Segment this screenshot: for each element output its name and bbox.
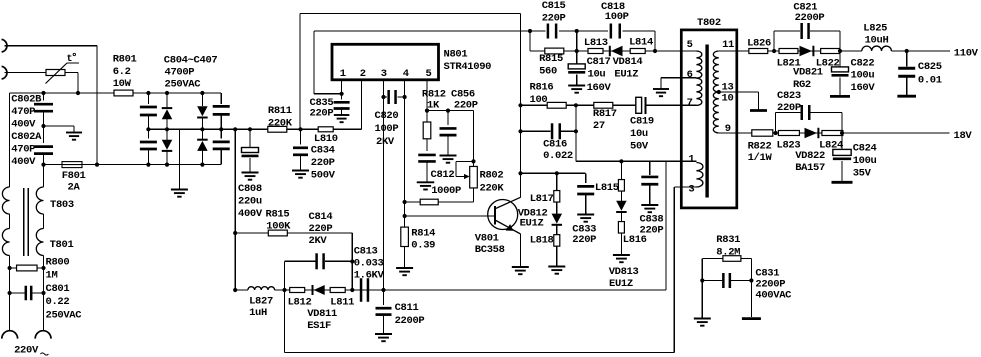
inductor L813 (588, 49, 603, 54)
inductor L825 10uH (862, 46, 892, 51)
inductor L812 (290, 288, 305, 293)
wire IC frame outer (pin2 feed) y=13.5 (300, 13, 521, 15)
node: bus/C814 leg (282, 288, 286, 292)
resistor R813 (R802 lower arm) (473, 188, 475, 202)
svg-text:C817: C817 (587, 56, 611, 68)
svg-text:0.022: 0.022 (543, 150, 573, 162)
wire thermistor to top bus (65, 72, 78, 74)
bridge column capacitor C804-a (x=148) (146, 91, 150, 95)
T802 pin 3 wire (674, 186, 696, 188)
svg-text:L815: L815 (595, 182, 619, 194)
svg-text:t: t (67, 54, 73, 65)
bottom rail wire y=352.4 (285, 351, 675, 353)
svg-text:1uH: 1uH (249, 307, 267, 319)
18V rail wire y=133 (737, 132, 950, 134)
bridge column capacitor C804-b (x=221) (219, 127, 223, 131)
node: C814 right (350, 259, 354, 263)
svg-text:C819: C819 (630, 115, 654, 127)
wire pin1 drop x=666 (665, 161, 667, 290)
svg-text:10: 10 (722, 92, 734, 104)
svg-text:R815: R815 (539, 53, 563, 65)
svg-text:160V: 160V (851, 82, 876, 94)
node: pin4/base wire (403, 214, 407, 218)
potentiometer R802 220K (470, 166, 478, 188)
resistor R822 1/1W (752, 130, 773, 136)
wire base (pin4 to V801) (405, 215, 495, 217)
110V rail wire y=51 (737, 50, 862, 52)
svg-text:400V: 400V (238, 208, 263, 220)
node: C856 top (446, 109, 450, 113)
T802 primary winding pins 5-6-7 (696, 51, 701, 105)
inductor L822 (821, 49, 840, 54)
transformer T802 box (681, 30, 737, 208)
capacitor C834 220P 500V (300, 129, 302, 144)
svg-text:100P: 100P (375, 123, 399, 135)
node: pin4/R813 (403, 200, 407, 204)
svg-text:8.2M: 8.2M (716, 247, 740, 259)
svg-text:C801: C801 (46, 283, 70, 295)
wire from J1 to fuse rail (5, 45, 97, 47)
svg-text:R815: R815 (266, 208, 290, 220)
svg-text:100P: 100P (605, 11, 629, 23)
diode VD814 EU1Z (609, 46, 611, 57)
wire L816 to ground (620, 233, 622, 255)
svg-text:C811: C811 (395, 302, 419, 314)
svg-text:T803: T803 (50, 199, 74, 211)
capacitor C813 0.033 1.6KV (series) (360, 278, 363, 302)
resistor R831 8.2M (702, 258, 723, 260)
node: bus/x235 (233, 288, 237, 292)
wire C831 right to chassis (750, 281, 752, 318)
wire x=576.7 to C817 (576, 31, 578, 64)
common-mode choke T803/T801 left winding (2, 187, 9, 214)
capacitor C825 0.01 (906, 51, 908, 67)
svg-text:C812: C812 (431, 169, 455, 181)
svg-text:220P: 220P (311, 157, 335, 169)
T802 lower primary winding pins 1-3 (696, 163, 703, 188)
svg-text:7: 7 (687, 97, 693, 109)
svg-text:1: 1 (688, 154, 694, 166)
fuse bus wire y=164.6 (44, 164, 222, 166)
node: L815 top (619, 159, 623, 163)
svg-text:R801: R801 (113, 53, 137, 65)
wire x=352.3 down (351, 233, 353, 290)
node: C802A bottom on fuse bus (41, 163, 45, 167)
svg-text:0.01: 0.01 (918, 75, 942, 87)
svg-text:C825: C825 (918, 61, 942, 73)
svg-text:220P: 220P (310, 107, 334, 119)
resistor R816 100 (521, 104, 636, 106)
wire C814 left leg (284, 261, 286, 290)
node: pin1 / C835 (340, 92, 344, 96)
left rail of snubber section x=235 (234, 129, 236, 290)
choke core lines (23, 188, 25, 256)
svg-text:1K: 1K (427, 100, 440, 112)
svg-text:2KV: 2KV (309, 235, 328, 247)
electrolytic capacitor C824 100u 35V (841, 133, 843, 149)
svg-text:100: 100 (530, 94, 548, 106)
node: C831 right (749, 278, 753, 282)
node: L824/C824 (840, 131, 844, 135)
inductor L816 (620, 212, 622, 221)
electrolytic capacitor C808 220u 400V (248, 127, 252, 131)
svg-text:R822: R822 (748, 141, 772, 153)
svg-text:VD822: VD822 (795, 150, 825, 162)
capacitor C831 2200P 400VAC (702, 280, 723, 282)
svg-text:STR41090: STR41090 (444, 61, 492, 73)
svg-text:R802: R802 (480, 170, 504, 182)
svg-text:0.22: 0.22 (46, 296, 70, 308)
inductor L826 (749, 49, 768, 54)
node: C817 top (575, 49, 579, 53)
wire R831 left leg (701, 259, 703, 319)
wire R815 branch down (529, 31, 531, 51)
svg-text:C815: C815 (542, 0, 566, 12)
node: snubber rail (653, 49, 657, 53)
capacitor C814 220P 2KV (285, 260, 316, 262)
inductor L815 (620, 161, 622, 180)
svg-text:27: 27 (593, 120, 605, 132)
svg-text:10uH: 10uH (865, 35, 889, 47)
wire IC frame inner y=31 (314, 30, 530, 32)
svg-text:250VAC: 250VAC (46, 310, 83, 322)
svg-text:R814: R814 (411, 228, 435, 240)
svg-text:T801: T801 (50, 239, 74, 251)
svg-text:C823: C823 (777, 90, 801, 102)
wire pin1 node y=161.3 (576, 160, 666, 162)
svg-text:ES1F: ES1F (307, 320, 331, 332)
ground (pin 6) (660, 78, 662, 89)
svg-text:220u: 220u (238, 196, 262, 208)
wire down to R802 top (473, 111, 475, 167)
ground (R831 left) (694, 318, 711, 320)
electrolytic capacitor C822 100u 160V (839, 51, 841, 67)
diode VD822 BA157 (817, 128, 819, 139)
svg-text:L810: L810 (314, 133, 338, 145)
svg-text:L813: L813 (584, 37, 608, 49)
wire collector rail x=520.5 (520, 14, 522, 198)
common-mode choke right winding (43, 165, 45, 187)
wire R815b y=233 (235, 232, 352, 234)
svg-text:1/1W: 1/1W (748, 152, 773, 164)
capacitor C812 1000P (426, 139, 428, 151)
svg-text:10u: 10u (588, 68, 606, 80)
svg-text:EU1Z: EU1Z (609, 278, 633, 290)
capacitor C811 2200P (383, 290, 385, 305)
node: R811/frame junction (298, 127, 302, 131)
diode VD821 RG2 (812, 46, 814, 57)
svg-text:220V: 220V (14, 344, 39, 356)
node: C815 left / R815 branch (528, 29, 532, 33)
svg-text:10u: 10u (630, 128, 648, 140)
svg-text:6: 6 (687, 69, 693, 81)
T802 pin 11 wire (719, 50, 737, 52)
svg-text:R800: R800 (46, 257, 70, 269)
node: fuse bus / terminal-1 rail (95, 163, 99, 167)
svg-text:500V: 500V (311, 169, 336, 181)
svg-text:C802A: C802A (11, 131, 42, 143)
node: L822/C822 (838, 49, 842, 53)
snubber wire y=51 to T802 pin5 (530, 50, 696, 52)
capacitor C833 220P (585, 173, 587, 183)
svg-text:2A: 2A (68, 182, 81, 194)
inductor L818 (556, 225, 558, 235)
left rail wire (to T803 winding) (9, 93, 11, 187)
node: rail/R816 (518, 103, 522, 107)
220V input terminals (2, 331, 18, 339)
node: R822/C823 (774, 131, 778, 135)
bridge diode column x=167 upper (points up) (165, 91, 169, 95)
electrolytic capacitor C817 10u 160V (568, 64, 585, 69)
T802 core bar (705, 45, 708, 198)
svg-text:C802B: C802B (11, 93, 42, 105)
node: tap 13/10 (717, 90, 721, 94)
inductor L827 1uH (248, 287, 275, 290)
svg-text:EU1Z: EU1Z (614, 68, 638, 80)
svg-text:50V: 50V (630, 141, 649, 153)
svg-text:400VAC: 400VAC (755, 289, 792, 301)
svg-text:R811: R811 (268, 105, 292, 117)
svg-text:C822: C822 (851, 58, 875, 70)
svg-text:0.39: 0.39 (411, 240, 435, 252)
capacitor C802A (34, 145, 53, 148)
diode VD813 EU1Z (620, 191, 622, 201)
chassis bar (tap) (750, 109, 767, 112)
T802 pin 1 wire (666, 160, 696, 162)
resistor R815 100K (268, 230, 287, 236)
svg-text:5: 5 (426, 68, 432, 80)
node: x=235 rail top (233, 127, 237, 131)
capacitor C802B (43, 93, 45, 101)
svg-text:N801: N801 (444, 49, 468, 61)
inductor L821 (779, 49, 798, 54)
resistor R814 0.39 (vertical) (401, 227, 409, 246)
svg-text:4700P: 4700P (165, 67, 195, 79)
svg-text:2200P: 2200P (795, 12, 825, 24)
svg-text:1.6KV: 1.6KV (354, 270, 385, 282)
resistor R817 27 (594, 102, 613, 108)
ground (V801 emitter) (512, 266, 529, 268)
wire emitter to ground (520, 234, 522, 267)
svg-text:3: 3 (381, 68, 387, 80)
wire pin5 junction to R802 branch (427, 110, 474, 112)
inductor L811 (330, 288, 345, 293)
svg-text:2200P: 2200P (395, 315, 425, 327)
collector bus wire y=173.3 (521, 172, 586, 174)
node: C802 top (41, 91, 45, 95)
svg-text:1M: 1M (46, 270, 58, 282)
svg-text:470P: 470P (11, 144, 35, 156)
svg-text:L818: L818 (530, 235, 554, 247)
node: R816/R817 (574, 103, 578, 107)
capacitor C823 220P loop (775, 113, 777, 134)
svg-text:400V: 400V (11, 119, 36, 131)
svg-text:R817: R817 (593, 108, 617, 120)
wire x=575.9 down (575, 105, 577, 161)
svg-text:220K: 220K (268, 117, 293, 129)
bridge diode column x=202 lower (points up) (197, 141, 208, 151)
node: x235/R815 (233, 231, 237, 235)
svg-text:4: 4 (403, 68, 409, 80)
svg-text:L827: L827 (249, 295, 273, 307)
svg-text:6.2: 6.2 (113, 66, 131, 78)
svg-text:L812: L812 (288, 297, 312, 309)
svg-text:160V: 160V (587, 82, 612, 94)
svg-text:35V: 35V (853, 168, 872, 180)
svg-text:C834: C834 (311, 144, 335, 156)
svg-text:T802: T802 (697, 17, 721, 29)
svg-text:VD813: VD813 (609, 266, 639, 278)
svg-text:100u: 100u (853, 155, 877, 167)
inductor L810 (bead) (318, 127, 333, 132)
AC input terminal J2 (bottom) (2, 66, 7, 79)
node: thermistor junction (76, 91, 80, 95)
thermistor RT (t) (46, 72, 65, 74)
capacitor C816 0.022 (521, 130, 551, 132)
wire from J2 to thermistor RT (5, 72, 47, 74)
node: bus/C813 leg (350, 288, 354, 292)
wire tap to chassis (719, 91, 759, 93)
svg-text:220P: 220P (572, 234, 596, 246)
svg-text:C820: C820 (375, 110, 399, 122)
node: C815/C817 junction (575, 29, 579, 33)
svg-text:5: 5 (687, 39, 693, 51)
svg-text:1: 1 (340, 68, 346, 80)
svg-text:2: 2 (360, 68, 366, 80)
capacitor C820 100P 2KV (pins 3-4) (381, 95, 385, 99)
svg-text:1000P: 1000P (431, 185, 461, 197)
svg-text:C824: C824 (853, 143, 877, 155)
wire pin3 drop x=674.3 (673, 187, 675, 352)
mid bus wire y=129.3 (148, 128, 361, 130)
transistor V801 BC358 (488, 200, 518, 230)
T802 secondary winding pins 11-13/10-9 (713, 51, 718, 133)
wire L818 to ground (556, 246, 558, 266)
svg-text:18V: 18V (954, 130, 973, 142)
inductor L814 (630, 49, 645, 54)
node: C831 left (700, 278, 704, 282)
node: rail/collector bus (518, 171, 522, 175)
bridge diode column x=202 upper (points down) (200, 91, 204, 95)
diode VD811 ES1F (312, 285, 314, 295)
diode VD812 EU1Z (556, 202, 558, 214)
svg-text:560: 560 (539, 66, 557, 78)
wire C814 leg to bottom rail (284, 290, 286, 352)
svg-text:2KV: 2KV (376, 136, 395, 148)
svg-text:L814: L814 (629, 36, 653, 48)
node: L826/C821 (772, 49, 776, 53)
svg-text:L817: L817 (530, 193, 554, 205)
svg-text:100K: 100K (266, 221, 291, 233)
electrolytic capacitor C819 10u 50V (636, 97, 642, 113)
top bus wire y=93 (10, 92, 222, 94)
node: R802 top / wiper tie (471, 159, 475, 163)
svg-text:VD814: VD814 (613, 56, 643, 68)
capacitor C815 220P (series) (530, 30, 545, 32)
resistor R800 1M (10, 267, 44, 269)
capacitor C856 220P (447, 111, 449, 126)
resistor R811 220K (268, 126, 287, 132)
ground (doubler midpoint) (171, 189, 188, 191)
svg-text:BC358: BC358 (475, 244, 505, 256)
svg-text:C816: C816 (543, 138, 567, 150)
svg-text:220P: 220P (454, 100, 478, 112)
svg-text:C814: C814 (309, 211, 333, 223)
svg-text:L811: L811 (330, 297, 354, 309)
svg-text:BA157: BA157 (795, 162, 825, 174)
fuse F801 2A (62, 162, 82, 168)
resistor R801 (114, 90, 133, 96)
T802 pin 9 wire (719, 132, 737, 134)
svg-text:R816: R816 (530, 82, 554, 94)
AC input terminal J1 (top) (2, 39, 7, 52)
node: C816/right (574, 129, 578, 133)
svg-text:EU1Z: EU1Z (520, 218, 544, 230)
svg-text:C804~C407: C804~C407 (164, 55, 218, 67)
svg-text:220P: 220P (309, 223, 333, 235)
svg-text:R831: R831 (716, 234, 740, 246)
inductor L824 (822, 131, 843, 136)
svg-text:C808: C808 (238, 183, 262, 195)
svg-text:220P: 220P (777, 102, 801, 114)
node: bus/C811 (381, 288, 385, 292)
svg-text:220P: 220P (640, 225, 664, 237)
svg-text:250VAC: 250VAC (165, 78, 202, 90)
svg-text:10W: 10W (113, 78, 132, 90)
inductor L823 (778, 131, 799, 136)
resistor R812 1K (vertical) (423, 122, 431, 139)
node: rail/C816 (518, 129, 522, 133)
capacitor C838 220P (649, 161, 651, 175)
node: L817 top (555, 171, 559, 175)
svg-text:400V: 400V (11, 156, 36, 168)
wire C802 midpoint to ground (44, 125, 75, 127)
bridge diode column x=167 lower (points down) (162, 140, 173, 150)
capacitor C821 2200P loop (773, 31, 775, 51)
capacitor C801 0.22 (8, 291, 12, 295)
node: pin5 junction (425, 109, 429, 113)
capacitor C835 220P (pin1 to gnd) (341, 94, 343, 100)
R802 wiper arrow (456, 160, 474, 162)
resistor R815 560 (545, 48, 564, 54)
IC N801 STR41090 box (332, 44, 439, 80)
svg-text:RG2: RG2 (793, 79, 811, 91)
node: C802 midpoint (41, 124, 45, 128)
svg-text:110V: 110V (954, 48, 979, 60)
svg-text:470P: 470P (11, 106, 35, 118)
svg-text:220P: 220P (542, 12, 566, 24)
wire C818 to snubber rail (654, 31, 656, 51)
svg-text:220K: 220K (480, 182, 505, 194)
svg-text:F801: F801 (62, 170, 86, 182)
svg-text:L825: L825 (863, 23, 887, 35)
wire R814 to ground (404, 247, 406, 268)
wire R831 right leg (750, 259, 752, 281)
svg-text:3: 3 (688, 184, 694, 196)
svg-text:0.033: 0.033 (354, 258, 384, 270)
svg-text:C813: C813 (354, 246, 378, 258)
wire mid-bus to chassis ground (178, 129, 180, 189)
wire inner frame to pin1 (314, 93, 342, 95)
svg-text:VD811: VD811 (307, 308, 337, 320)
svg-text:11: 11 (722, 39, 734, 51)
svg-text:L826: L826 (747, 38, 771, 50)
chassis bar (C831) (742, 317, 761, 320)
svg-text:100u: 100u (851, 69, 875, 81)
bottom bus wire y=290 (235, 289, 248, 291)
node: L825/C825 (905, 49, 909, 53)
capacitor C818 100P (series) (577, 30, 609, 32)
